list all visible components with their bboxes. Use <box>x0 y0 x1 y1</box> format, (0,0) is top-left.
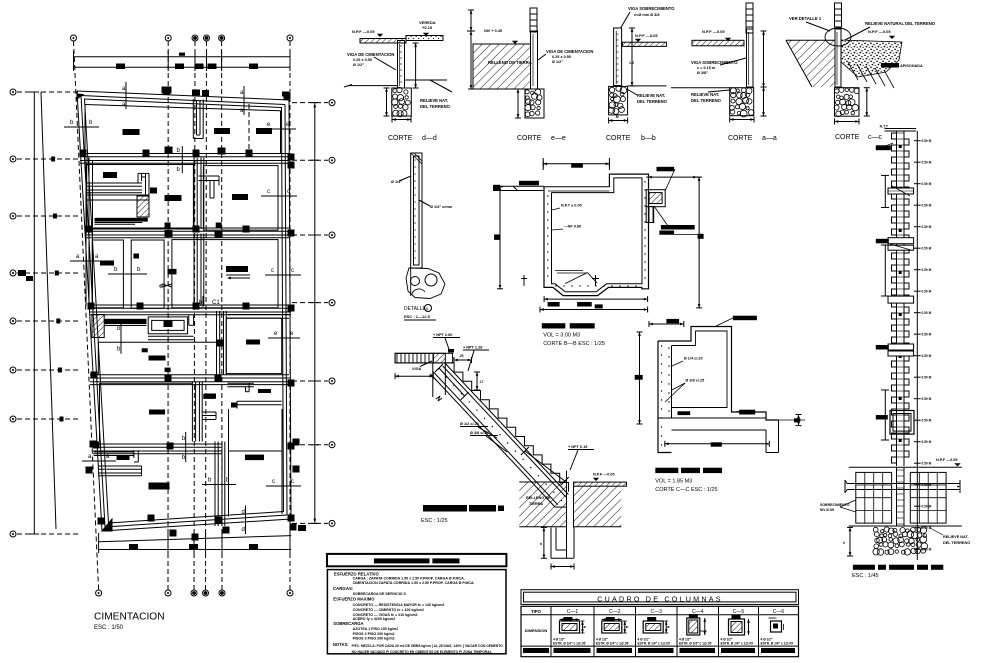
svg-text:0.50 M: 0.50 M <box>922 139 932 143</box>
cc bottom slab <box>658 418 779 453</box>
elev scale <box>852 573 879 579</box>
grid bubble bottom 2 <box>165 590 171 596</box>
stairs steps <box>445 363 568 492</box>
wall V spine row5 <box>192 382 202 442</box>
grid bubble left 5 <box>10 318 16 324</box>
plan left tilted footing line <box>41 92 56 529</box>
row2 corridor wall upper <box>87 183 142 193</box>
corte d-d footing <box>392 87 412 116</box>
stairs scale text <box>421 518 448 524</box>
label a-a top wall <box>122 82 126 109</box>
stairs viga label <box>412 361 432 371</box>
plan scale <box>94 625 124 631</box>
wall junction marks <box>80 87 300 541</box>
corte d-d wall <box>398 41 405 89</box>
tank dim left <box>494 187 503 289</box>
elev npf <box>916 458 961 467</box>
svg-text:d—d: d—d <box>422 135 437 142</box>
svg-text:ESC : 1—12.5: ESC : 1—12.5 <box>404 314 431 319</box>
tank top slab line <box>548 190 609 192</box>
row6 L hook <box>98 466 142 476</box>
elev right dim chain <box>914 131 932 560</box>
detalle1 scale <box>404 314 436 320</box>
grid bubble left 1 <box>10 89 16 95</box>
cc outer left-bottom <box>658 341 672 453</box>
tank vol text <box>543 333 580 339</box>
top wall small marks <box>163 89 289 96</box>
footing F10 <box>246 340 260 345</box>
corte c-c hatch streaks <box>848 62 894 88</box>
grid line vertical 4 <box>206 41 207 590</box>
label e-e room1 right <box>261 122 296 129</box>
svg-text:DEL TERRENO: DEL TERRENO <box>637 99 668 104</box>
stairs relleno text <box>526 496 551 506</box>
stairs step dim2 <box>474 372 484 390</box>
svg-text:0.50 M: 0.50 M <box>922 333 932 337</box>
left chain marks <box>18 157 64 422</box>
corte c-c text relieve natural <box>845 21 936 40</box>
svg-text:SOBRECARGA: SOBRECARGA <box>333 621 363 626</box>
corte a-a slab hatch <box>692 40 744 46</box>
cc inner wall line <box>672 331 728 418</box>
corte c-c stipple ground <box>841 40 902 77</box>
row5 right wall W2 <box>231 389 282 409</box>
stairs landing dim <box>395 373 433 379</box>
svg-text:ESC : 1/45: ESC : 1/45 <box>852 573 879 579</box>
cuadro dimension label <box>525 628 548 633</box>
elev label bar top <box>876 143 893 150</box>
grid bubble right 7 <box>329 520 335 526</box>
cc top bar label <box>714 316 757 327</box>
svg-text:CIMENTACION: CIMENTACION <box>94 612 165 623</box>
svg-text:VOL = 3.00 M3: VOL = 3.00 M3 <box>543 333 580 339</box>
stairs landing mark <box>448 349 454 353</box>
corte c-c dim right <box>864 88 870 116</box>
svg-text:N.P.F —0.05: N.P.F —0.05 <box>936 458 957 462</box>
extra junction marks <box>165 147 226 239</box>
corte b-b title <box>606 135 656 142</box>
svg-text:NOTAS:: NOTAS: <box>333 642 349 647</box>
wall V spine jog row2 <box>199 176 220 198</box>
svg-text:0.50 M: 0.50 M <box>922 354 932 358</box>
grid dashed left 2 <box>17 158 80 160</box>
grid bubble top 3 <box>192 35 198 41</box>
grid dashed right 6 <box>292 444 328 446</box>
wall H4 <box>90 375 289 385</box>
tank water level lines <box>555 271 587 274</box>
footing F3 <box>256 128 272 134</box>
plan left dimension line 1 <box>29 92 39 534</box>
svg-text:N.P.F —0.05: N.P.F —0.05 <box>868 29 891 34</box>
label c-c row6 right <box>266 479 301 486</box>
svg-text:DEL TERRENO: DEL TERRENO <box>943 541 970 545</box>
svg-text:VER DETALLE 1: VER DETALLE 1 <box>789 16 822 21</box>
svg-text:RELLENO DE: RELLENO DE <box>526 496 551 500</box>
grid bubble top 5 <box>219 35 225 41</box>
label b-b row5b <box>182 432 186 462</box>
svg-text:CORTE B—B ESC : 1/25: CORTE B—B ESC : 1/25 <box>543 341 605 347</box>
grid bubble left 2 <box>10 156 16 162</box>
grid bubble right 1 <box>329 100 335 106</box>
espec main box <box>327 570 506 654</box>
svg-text:DEL TERRENO: DEL TERRENO <box>691 98 722 103</box>
detalle1 wall <box>411 153 422 268</box>
svg-text:N.P.T ± 0.00: N.P.T ± 0.00 <box>561 204 582 208</box>
corte c-c title <box>835 134 883 141</box>
cc bar label2 <box>678 410 756 415</box>
svg-text:CONCRETO — RESISTENCIA MAYOR: CONCRETO — RESISTENCIA MAYOR fc = 140 kg… <box>353 603 445 607</box>
black bar row2 <box>95 218 148 225</box>
grid dashed right 3 <box>292 234 328 236</box>
svg-text:RELIEVE NAT.: RELIEVE NAT. <box>943 535 969 539</box>
corte c-c footing <box>834 87 859 116</box>
cuadro tipo text <box>531 609 542 614</box>
room2 right face <box>203 166 278 231</box>
svg-text:DETALLE: DETALLE <box>404 306 427 312</box>
tank sump diagonal <box>565 273 597 284</box>
stairs slope dim2 <box>521 447 569 485</box>
cuadro column diagram C-4 <box>679 614 712 646</box>
grid dashed left 3 <box>17 215 80 217</box>
svg-text:CORTE: CORTE <box>517 135 542 142</box>
grid bubble left 3 <box>10 213 16 219</box>
label c-c row3 right <box>265 268 301 275</box>
wall slot room1 <box>193 99 203 139</box>
grid bubble top 2 <box>165 35 171 41</box>
svg-text:a—a: a—a <box>762 135 777 142</box>
label b-b H1 vert <box>177 146 183 173</box>
svg-text:0.50 M: 0.50 M <box>922 376 932 380</box>
elev beam5 <box>876 344 914 350</box>
elev relieve text <box>930 528 970 545</box>
svg-text:NIV + 0.45: NIV + 0.45 <box>484 29 502 33</box>
corte d-d text vereda <box>419 20 436 36</box>
corte c-c dim bottom <box>835 119 860 125</box>
svg-text:DIMENSION: DIMENSION <box>525 628 548 633</box>
row4 stub wall <box>189 315 194 326</box>
label d-d bottom <box>242 506 246 535</box>
cc dim top <box>649 319 684 327</box>
svg-text:CONCRETO — CIMIENTO: CONCRETO — CIMIENTO fc = 100 kg/cm2 <box>353 608 424 612</box>
svg-text:ESFUERZO MAXIMO: ESFUERZO MAXIMO <box>333 597 375 602</box>
svg-text:PISOS 3 PISO 250 kg/m2: PISOS 3 PISO 250 kg/m2 <box>353 637 395 641</box>
svg-text:N.P.F —0.05: N.P.F —0.05 <box>352 29 375 34</box>
svg-text:TIERRA: TIERRA <box>529 502 543 506</box>
grid bubble left 4 <box>10 270 16 276</box>
cuadro column diagram C-2 <box>596 617 629 646</box>
tank label nf <box>552 225 581 231</box>
grid bubble right 5 <box>329 378 335 384</box>
corte a-a ground left <box>671 87 730 89</box>
svg-text:c: c <box>291 268 294 274</box>
cc title bars <box>655 468 722 473</box>
svg-text:0.50 M: 0.50 M <box>922 311 932 315</box>
cuadro esfuerzo bars <box>554 648 796 653</box>
svg-text:h: h <box>540 542 542 546</box>
label a-a top wall 2 <box>240 86 244 115</box>
grid dashed left 8 <box>17 533 80 535</box>
footing F5 <box>165 195 182 201</box>
tank corner ticks <box>521 275 599 286</box>
row4b room face <box>98 342 170 375</box>
espec text block <box>333 571 503 654</box>
detalle1 label o14 <box>391 176 411 184</box>
corte e-e dim left <box>467 10 475 89</box>
corte d-d ground line left <box>344 85 398 88</box>
room3 B face <box>131 240 164 308</box>
wall V row6 spine <box>215 442 225 527</box>
footing F17 <box>298 525 306 531</box>
svg-text:0.50 M: 0.50 M <box>922 440 932 444</box>
grid dashed left 4 <box>17 272 80 274</box>
svg-text:C—5: C—5 <box>733 609 745 615</box>
outer wall right <box>282 100 292 519</box>
detalle1 top hatch <box>411 153 422 164</box>
svg-text:+0.15: +0.15 <box>422 25 433 30</box>
grid dashed left 1 <box>17 91 80 93</box>
svg-text:0.25 x 0.50: 0.25 x 0.50 <box>552 55 571 59</box>
cc label o38 <box>665 379 704 403</box>
grid bubble top 6 <box>287 35 293 41</box>
svg-text:0.50 M: 0.50 M <box>922 204 932 208</box>
elev dim rubble <box>843 527 853 556</box>
svg-text:.25: .25 <box>459 354 464 358</box>
svg-text:c: c <box>291 479 294 485</box>
corte b-b dim bottom <box>609 115 628 124</box>
grid bubble right 6 <box>329 442 335 448</box>
svg-text:0.50 M: 0.50 M <box>922 268 932 272</box>
wall H2 <box>86 228 289 238</box>
svg-text:0.50 M: 0.50 M <box>922 419 932 423</box>
cuadro title text <box>597 594 722 603</box>
stairs footing dim <box>540 528 547 559</box>
grid bubble bottom 3 <box>191 590 197 596</box>
label c-c row2 right <box>261 189 297 196</box>
footing F8 <box>168 269 177 275</box>
corte d-d text viga <box>347 52 396 70</box>
wall V left inner <box>86 158 93 307</box>
svg-text:NIV Ø 3/8: NIV Ø 3/8 <box>820 508 834 512</box>
stairs top label <box>433 333 460 352</box>
elev beam6 <box>888 351 914 356</box>
label a-a row6 <box>82 454 116 461</box>
tank dim top right <box>646 176 699 179</box>
grid bubble left 8 <box>10 531 16 537</box>
grid dashed right 1 <box>292 102 328 104</box>
svg-text:C1: C1 <box>212 300 220 306</box>
footing F4 <box>103 172 117 178</box>
footing F6 <box>232 194 248 200</box>
svg-text:b—b: b—b <box>641 135 656 142</box>
elev beam4 <box>888 296 914 303</box>
corte c-c text ver detalle <box>789 16 830 31</box>
grid bubble bottom 6 <box>287 590 293 596</box>
stairs title bars <box>423 505 504 512</box>
corte b-b ground line <box>628 85 667 87</box>
cc vol text <box>655 479 692 485</box>
footing F13 <box>149 356 166 361</box>
corte d-d dim left <box>384 88 390 116</box>
corte b-b footing <box>609 86 628 115</box>
bottom left corner wedge <box>102 519 112 531</box>
corte a-a text viga <box>691 58 746 75</box>
wall H3 <box>90 305 291 315</box>
row2 corridor wall lower <box>87 195 149 200</box>
stairs soffit <box>430 364 568 508</box>
wall V spine row3 <box>194 234 204 307</box>
label b C1 <box>199 296 220 307</box>
label b-b row3 <box>108 267 147 274</box>
footing F15 <box>149 483 170 490</box>
svg-text:N.P.F —0.05: N.P.F —0.05 <box>593 473 614 477</box>
elev top cap <box>880 125 916 132</box>
svg-text:c: c <box>271 268 274 274</box>
svg-text:+ NPT 1.28: + NPT 1.28 <box>463 346 482 350</box>
tank wall rebar dots <box>547 181 646 286</box>
svg-text:VOL = 1.85 M3: VOL = 1.85 M3 <box>655 479 692 485</box>
svg-text:—NF 0.80: —NF 0.80 <box>564 225 581 229</box>
svg-text:0.25 x 0.50: 0.25 x 0.50 <box>353 58 372 62</box>
grid line vertical 5 <box>221 41 223 590</box>
cuadro column diagram C-3 <box>638 617 671 646</box>
svg-text:.17: .17 <box>479 380 484 384</box>
stairs footing outline <box>551 528 574 559</box>
svg-text:ESTR. Ø 1/4″ c 1@.05: ESTR. Ø 1/4″ c 1@.05 <box>553 642 586 646</box>
corte e-e text niv <box>484 29 518 44</box>
svg-text:Ø 3/8″: Ø 3/8″ <box>697 71 708 75</box>
detalle1 footing blob <box>406 268 445 299</box>
elev rubble band <box>873 527 928 555</box>
corte e-e text viga <box>538 49 593 64</box>
svg-text:e—e: e—e <box>551 135 566 142</box>
tank outer outline <box>544 174 649 296</box>
svg-text:Ø 3/8 c/.25: Ø 3/8 c/.25 <box>685 379 704 383</box>
grid dashed right 5 <box>292 380 328 382</box>
svg-text:1.3: 1.3 <box>629 61 634 65</box>
svg-text:VIGA DE CIMENTACION: VIGA DE CIMENTACION <box>347 52 394 57</box>
row5 spine hook <box>202 394 216 419</box>
svg-text:SOBRECARGA DE SERVICIO S: SOBRECARGA DE SERVICIO S <box>353 592 407 596</box>
corte d-d text relieve <box>420 98 451 109</box>
svg-text:e=Ø mm Ø 3/8: e=Ø mm Ø 3/8 <box>634 13 659 17</box>
wall H5 <box>93 444 222 454</box>
corte e-e wall <box>531 31 538 89</box>
detalle1 title <box>404 305 432 313</box>
footing F7 <box>100 261 114 266</box>
outer wall top <box>77 91 289 108</box>
elev title bars <box>853 565 943 570</box>
svg-text:h: h <box>843 541 845 545</box>
tank left slab <box>493 181 544 191</box>
label b-b row6 <box>202 478 236 485</box>
svg-text:d: d <box>242 527 245 533</box>
tank label npt <box>552 204 582 211</box>
svg-text:Ø 1/2″: Ø 1/2″ <box>552 60 563 64</box>
svg-text:0.50 M: 0.50 M <box>922 182 932 186</box>
stairs npf label <box>593 473 615 482</box>
tank dim top <box>543 158 609 170</box>
svg-text:VIGA SOBRECIMIENTO: VIGA SOBRECIMIENTO <box>628 6 675 11</box>
row2 corridor hook <box>138 173 149 196</box>
elev beam3 <box>888 244 914 250</box>
stairs step label2 <box>463 346 489 372</box>
elev beam2 <box>876 238 914 244</box>
elev beam1 <box>888 186 914 196</box>
svg-text:ESTR. Ø 1/4″ c 1@.05: ESTR. Ø 1/4″ c 1@.05 <box>638 642 671 646</box>
corte c-c text npf <box>868 29 895 39</box>
svg-text:Ø 3/8 c/.25: Ø 3/8 c/.25 <box>470 431 489 435</box>
svg-text:CORTE C—C ESC : 1/25: CORTE C—C ESC : 1/25 <box>655 487 717 493</box>
svg-text:CIMENTACION ZAPATA CORRIDA 1: CIMENTACION ZAPATA CORRIDA 1.50 x 2.50 P… <box>353 581 475 585</box>
room3 A face <box>92 240 123 308</box>
elev footing top line <box>849 466 962 468</box>
stairs slab right <box>574 482 627 486</box>
stairs landing drop lines <box>433 363 446 401</box>
svg-text:RELIEVE NAT.: RELIEVE NAT. <box>420 98 448 103</box>
svg-text:0.50 M: 0.50 M <box>922 290 932 294</box>
plan top dimension chain <box>74 51 291 71</box>
corte e-e relleno hatch <box>473 44 531 89</box>
espec title box <box>327 554 506 566</box>
svg-text:RELIEVE NAT.: RELIEVE NAT. <box>637 93 665 98</box>
corte b-b dim right <box>629 28 635 86</box>
row6 U hook <box>94 450 139 462</box>
corte c-c text tierra <box>881 63 923 68</box>
tank right hatch block <box>646 207 654 223</box>
svg-text:0.50 M: 0.50 M <box>922 397 932 401</box>
grid dashed right 7 <box>292 522 328 524</box>
row5 left room face <box>100 383 193 441</box>
grid line vertical 3 <box>194 41 195 590</box>
corte d-d ground line right <box>405 80 453 92</box>
cc dim right small <box>770 415 805 426</box>
grid bubble right 4 <box>329 300 335 306</box>
corte a-a wall <box>747 29 754 87</box>
wall H6 partial <box>98 336 216 342</box>
grid bubble right 2 <box>329 157 335 163</box>
stairs landing band <box>395 353 453 363</box>
grid line vertical 2 <box>167 41 169 590</box>
svg-text:VIGA DE CIMENTACION: VIGA DE CIMENTACION <box>546 49 593 54</box>
svg-text:Ø 1/4 c/.20: Ø 1/4 c/.20 <box>684 357 703 361</box>
grid dashed left 6 <box>17 369 80 371</box>
footing F16 <box>245 455 264 461</box>
elev bracket dim1 <box>881 175 889 207</box>
label b-b room1 left <box>64 120 99 127</box>
label e-e row4 right <box>268 331 300 338</box>
tank title bars <box>542 323 595 328</box>
elev sobrecim text <box>820 500 856 512</box>
svg-text:TIPO: TIPO <box>531 609 542 614</box>
svg-text:Ø 1/2 c/.20: Ø 1/2 c/.20 <box>460 422 479 426</box>
grid bubble left 7 <box>10 416 16 422</box>
wall V row6 right room <box>229 409 283 517</box>
corte b-b text npf <box>635 33 659 42</box>
corte d-d slab hatch <box>360 39 406 44</box>
grid bubble top 4 <box>204 35 210 41</box>
wall V spine row2 <box>194 158 204 230</box>
svg-text:N.T.T: N.T.T <box>880 125 889 129</box>
svg-text:PISOS 2 PISO 200 kg/m2: PISOS 2 PISO 200 kg/m2 <box>353 632 395 636</box>
elev bracket dim2 <box>881 245 889 296</box>
cc dim left <box>635 332 643 424</box>
cuadro column diagram C-6 <box>761 618 794 646</box>
grid bubble left 6 <box>10 367 16 373</box>
cuadro esfuerzo label <box>523 648 549 653</box>
corte d-d dim right <box>413 43 419 88</box>
tank dim bottom1 <box>544 296 648 308</box>
svg-text:0.50 M: 0.50 M <box>922 462 932 466</box>
